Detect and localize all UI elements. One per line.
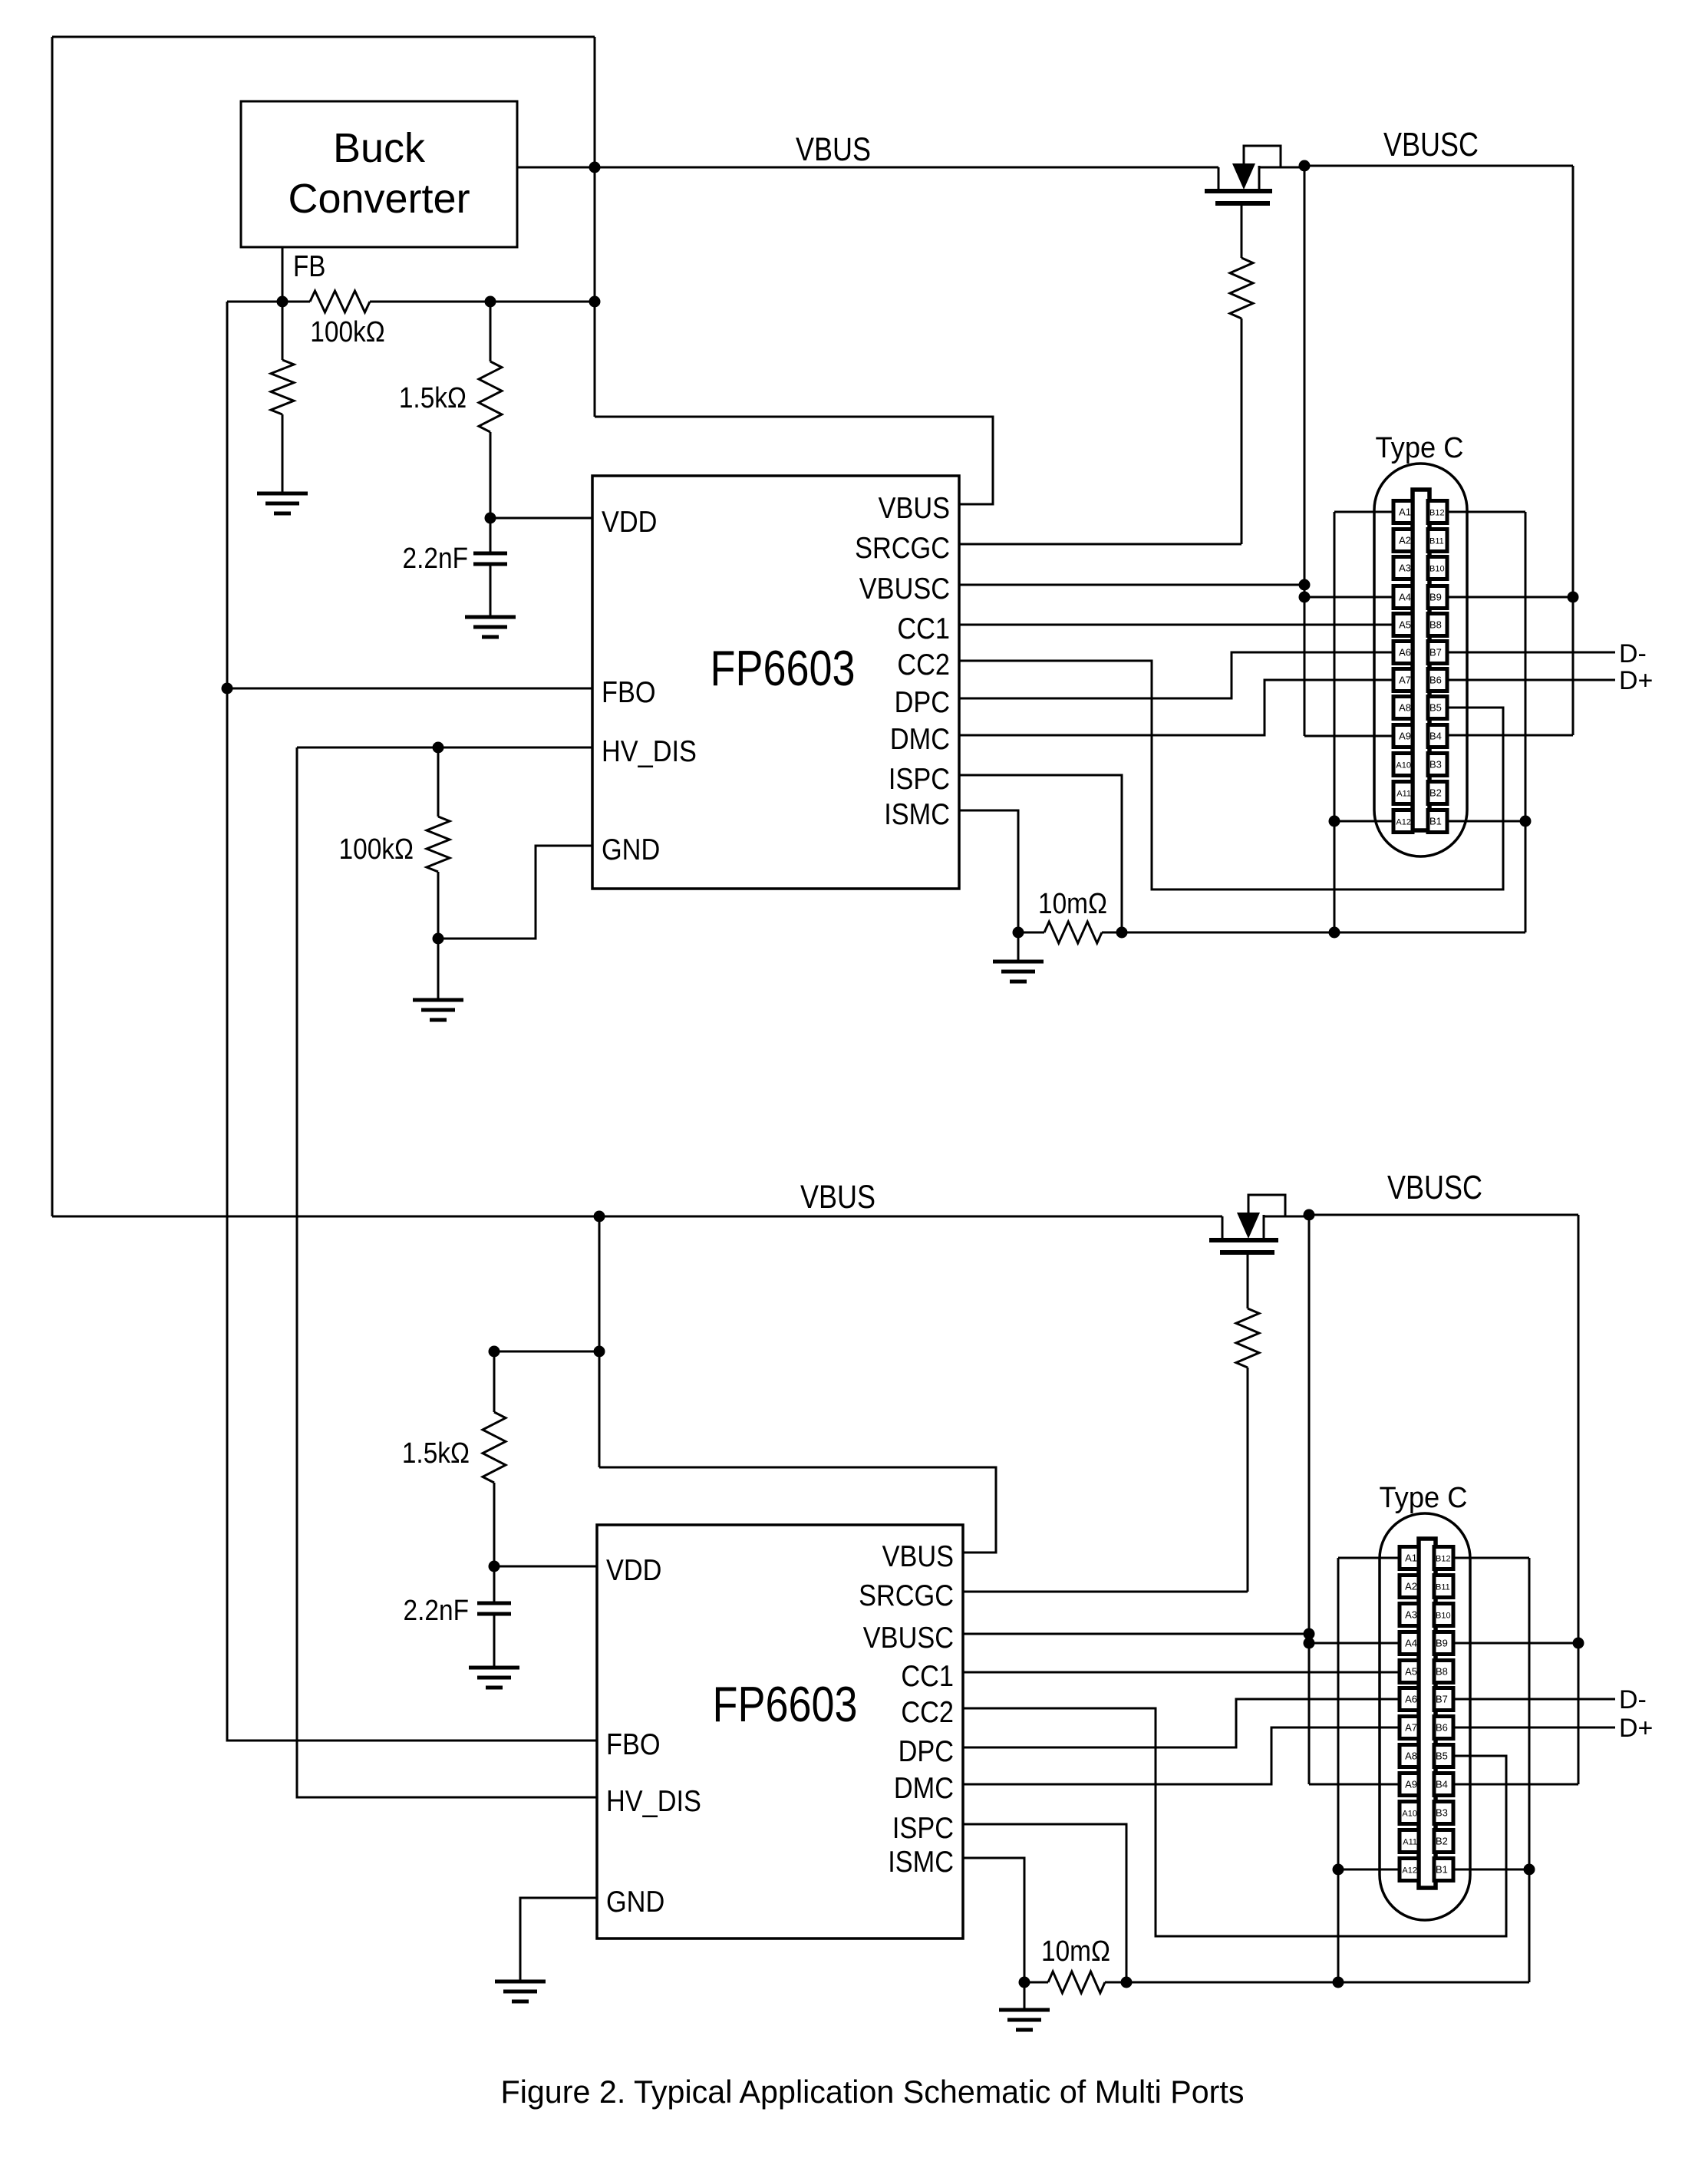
svg-text:10mΩ: 10mΩ	[1038, 887, 1107, 919]
J2 pin B10	[1434, 1604, 1453, 1626]
svg-text:A8: A8	[1399, 702, 1411, 714]
wire net VBUSC2 to B9	[1451, 1642, 1578, 1645]
J2 pin A9	[1400, 1774, 1419, 1796]
J1 pin B2	[1428, 782, 1447, 804]
junction VBUSC1/B9 junction	[1568, 592, 1579, 603]
label U2 pin VBUS	[882, 1539, 954, 1573]
label R_FB value	[310, 315, 384, 348]
svg-text:VBUS: VBUS	[800, 1179, 875, 1216]
ground GND below R1	[257, 493, 308, 513]
junction typeC-gnd left junction	[1329, 927, 1340, 939]
svg-text:B9: B9	[1436, 1638, 1448, 1649]
wire net DMC (U1 to A7)	[959, 680, 1394, 735]
wire C1 bottom lead	[490, 564, 492, 617]
wire left VBUS feed down to port2	[51, 37, 54, 1216]
label U1 pin SRCGC	[855, 531, 950, 565]
wire net VBUSC2 to B4	[1451, 1783, 1578, 1786]
wire net B12 wire	[1447, 511, 1525, 513]
J2 pin B4	[1434, 1774, 1453, 1796]
svg-text:Figure 2. Typical Application: Figure 2. Typical Application Schematic …	[501, 2074, 1245, 2110]
svg-text:CC1: CC1	[897, 612, 950, 645]
svg-text:VBUSC: VBUSC	[859, 572, 950, 605]
svg-text:A11: A11	[1396, 790, 1411, 799]
wire net VBUSC1 left drop	[1304, 166, 1306, 736]
svg-text:2.2nF: 2.2nF	[404, 1594, 469, 1626]
junction FBO1 junction	[222, 683, 233, 695]
wire top VBUS feed to port2 (top run)	[52, 36, 595, 38]
label U2 pin ISPC	[892, 1811, 954, 1845]
wire net VDD1	[490, 517, 592, 520]
J1 pin A12	[1393, 810, 1413, 833]
wire net B12-2 wire	[1451, 1557, 1529, 1559]
J2 pin A1	[1400, 1547, 1419, 1569]
wire net HV_DIS to U1	[297, 747, 592, 749]
wire net B1-2 wire	[1451, 1869, 1529, 1871]
J2 pin A5	[1400, 1661, 1419, 1683]
svg-text:FP6603: FP6603	[711, 640, 856, 696]
label U1 pin HV_DIS	[602, 734, 697, 768]
label U1 pin ISPC	[889, 762, 950, 796]
junction B1 junction	[1520, 816, 1532, 827]
svg-text:VBUS: VBUS	[879, 491, 950, 525]
svg-text:Type C: Type C	[1380, 1482, 1468, 1514]
wire net typeC-gnd left (A1/A12)	[1334, 512, 1336, 932]
svg-text:D+: D+	[1619, 1714, 1653, 1743]
label C2 value	[404, 1594, 469, 1626]
wire net CC1 (U1 to A5)	[959, 624, 1394, 626]
svg-text:A12: A12	[1396, 818, 1411, 827]
junction typeC2-gnd left junction	[1333, 1977, 1344, 1988]
J2 pin A10	[1400, 1802, 1419, 1824]
J2 pin B7	[1434, 1688, 1453, 1711]
J2 pin A8	[1400, 1745, 1419, 1767]
wire R5 zigzag	[1044, 922, 1102, 943]
wire net VBUSC1 to A4	[1304, 596, 1394, 599]
svg-text:A5: A5	[1405, 1666, 1417, 1678]
wire net FB left	[227, 301, 310, 303]
wire R_FB zigzag	[310, 291, 370, 312]
J1 pin B1	[1428, 810, 1447, 833]
junction R5 left junction	[1013, 927, 1024, 939]
capacitor C2 2.2nF	[477, 1603, 511, 1614]
J1 pin A4	[1393, 586, 1413, 609]
svg-text:Converter: Converter	[288, 176, 470, 222]
wire net CC1-2 (U2 to A5)	[963, 1671, 1400, 1674]
wire R7 zigzag	[1236, 1308, 1259, 1368]
label U2 pin VDD	[606, 1553, 661, 1587]
ground GND below R8	[999, 2010, 1050, 2030]
label R2 value	[399, 381, 467, 414]
J1 pin B4	[1428, 725, 1447, 747]
wire net A12-2 wire	[1338, 1869, 1400, 1871]
svg-text:B9: B9	[1429, 592, 1442, 603]
svg-text:GND: GND	[606, 1885, 664, 1919]
wire net VBUSC1 top	[1304, 165, 1573, 167]
ground GND below C1	[465, 617, 516, 637]
connector J2 (USB Type-C receptacle)	[1380, 1513, 1470, 1920]
wire net A1 wire	[1334, 511, 1394, 513]
svg-text:A9: A9	[1405, 1779, 1417, 1790]
wire R7 top lead	[1247, 1252, 1249, 1308]
wire R6 bottom lead	[493, 1483, 496, 1566]
wire net typeC2-gnd left (A1/A12)	[1337, 1558, 1340, 1982]
J1 pin B3	[1428, 754, 1447, 776]
wire net DMC-2 (U2 to A7)	[963, 1727, 1400, 1784]
svg-text:B1: B1	[1436, 1864, 1448, 1876]
svg-text:A6: A6	[1405, 1694, 1417, 1705]
label R8 value	[1041, 1935, 1110, 1967]
wire net CC2 (U1 to B5)	[959, 661, 1503, 889]
junction A12 junction	[1329, 816, 1340, 827]
svg-text:1.5kΩ: 1.5kΩ	[399, 381, 467, 414]
svg-text:B3: B3	[1436, 1807, 1448, 1819]
wire R4 zigzag	[1230, 258, 1253, 318]
svg-text:ISPC: ISPC	[889, 762, 950, 796]
wire net ISPC2/typeC-gnd	[1126, 1981, 1529, 1984]
wire net VBUSC2 to U2 pin	[963, 1633, 1309, 1635]
junction VBUSC1/U1 pin junction	[1299, 579, 1311, 591]
wire R3 bottom lead	[437, 872, 440, 939]
wire net VBUS2	[52, 1216, 1222, 1218]
wire net HV_DIS	[297, 747, 597, 1797]
junction VBUSC1 junction at Q1 source	[1299, 160, 1311, 172]
label U2 pin DMC	[894, 1771, 954, 1805]
junction VBUS1/top-feed junction	[589, 162, 601, 173]
wire R6 zigzag	[483, 1412, 506, 1483]
J1 tongue	[1413, 490, 1429, 830]
wire net ISMC-2	[963, 1858, 1024, 1982]
wire net FBO to U1	[227, 688, 592, 690]
svg-text:SRCGC: SRCGC	[859, 1579, 954, 1612]
label U1 pin DMC	[890, 722, 950, 756]
wire net B1 wire	[1447, 820, 1525, 823]
J2 pin A6	[1400, 1688, 1419, 1711]
junction VBUSC2/B9 junction	[1573, 1638, 1584, 1649]
J1 pin A6	[1393, 642, 1413, 664]
wire net typeC2-gnd right (B12/B1)	[1528, 1558, 1531, 1982]
svg-text:A2: A2	[1399, 535, 1411, 546]
wire net ISPC	[959, 775, 1122, 932]
svg-text:A10: A10	[1402, 1810, 1417, 1819]
wire net ISPC/typeC-gnd	[1122, 932, 1525, 934]
wire R2 zigzag	[479, 361, 502, 432]
wire net VBUS1 drop from top run	[594, 37, 596, 417]
wire net R6 top link	[494, 1351, 599, 1353]
wire net VBUSC1 right drop	[1572, 166, 1574, 735]
wire R8 zigzag	[1048, 1972, 1105, 1993]
svg-text:A5: A5	[1399, 619, 1411, 631]
svg-text:A2: A2	[1405, 1581, 1417, 1592]
label R6 value	[402, 1437, 470, 1469]
wire GND1 stem	[437, 939, 440, 1000]
label U1 pin VDD	[602, 505, 657, 539]
wire R8 right lead	[1105, 1981, 1126, 1984]
junction R8 left junction	[1019, 1977, 1030, 1988]
junction VDD1 junction	[485, 513, 496, 524]
junction VBUSC1/A4 junction	[1299, 592, 1311, 603]
wire net VBUSC1 to U1 pin	[959, 584, 1304, 586]
svg-text:B2: B2	[1429, 787, 1442, 799]
wire Buck FB lead	[282, 247, 284, 302]
J2 pin B3	[1434, 1802, 1453, 1824]
wire net GND2 (U2 GND)	[520, 1898, 597, 1981]
svg-text:HV_DIS: HV_DIS	[602, 734, 697, 768]
junction FB/VBUS1 junction	[589, 296, 601, 308]
label U1 pin DPC	[895, 685, 950, 719]
svg-text:CC2: CC2	[901, 1695, 954, 1729]
wire net VBUS1	[517, 167, 1218, 169]
J2 pin B9	[1434, 1632, 1453, 1655]
J2 pin A12	[1400, 1859, 1419, 1881]
J2 pin A11	[1400, 1830, 1419, 1853]
J2 pin A7	[1400, 1717, 1419, 1739]
junction VBUS2/R6 junction	[594, 1346, 605, 1358]
label U1 pin CC2	[897, 648, 950, 681]
ground GND below C2	[469, 1668, 519, 1688]
label U1 pin CC1	[897, 612, 950, 645]
wire net CC2-2 (U2 to B5)	[963, 1708, 1506, 1936]
wire R5 right lead	[1102, 932, 1122, 934]
wire net D- (B7)	[1447, 652, 1615, 654]
J1 pin A1	[1393, 501, 1413, 523]
wire R3 zigzag	[427, 817, 450, 872]
wire R2 bottom lead	[490, 432, 492, 518]
J1 pin B6	[1428, 669, 1447, 691]
J1 pin B8	[1428, 614, 1447, 636]
wire net D+ (B6)	[1447, 679, 1615, 681]
transistor Q1 (pass PMOS)	[1205, 146, 1304, 203]
svg-text:SRCGC: SRCGC	[855, 531, 950, 565]
J1 pin A5	[1393, 614, 1413, 636]
J1 pin B7	[1428, 642, 1447, 664]
label U2 pin VBUSC	[863, 1621, 954, 1655]
svg-text:A1: A1	[1399, 507, 1411, 518]
wire C1 top lead	[490, 518, 492, 553]
svg-text:A11: A11	[1403, 1838, 1417, 1847]
label U1 pin GND	[602, 833, 660, 866]
svg-text:B7: B7	[1429, 647, 1442, 658]
junction FB/R1.5k junction	[485, 296, 496, 308]
wire net VBUSC2 right drop	[1578, 1215, 1580, 1784]
wire net A1-2 wire	[1338, 1557, 1400, 1559]
svg-text:B6: B6	[1429, 675, 1442, 686]
J2 pin B12	[1434, 1547, 1453, 1569]
capacitor C1 2.2nF	[473, 553, 507, 564]
junction VBUS2 junction	[594, 1211, 605, 1223]
wire R6 top lead	[493, 1351, 496, 1412]
junction R6 top junction	[489, 1346, 500, 1358]
svg-text:ISMC: ISMC	[888, 1845, 954, 1879]
label U2 pin CC2	[901, 1695, 954, 1729]
IC U2 FP6603 (port 2)	[597, 1525, 963, 1939]
svg-text:DMC: DMC	[890, 722, 950, 756]
J2 pin B1	[1434, 1859, 1453, 1881]
ground GND below R5	[993, 962, 1044, 982]
svg-text:B12: B12	[1436, 1555, 1451, 1564]
J2 pin A4	[1400, 1632, 1419, 1655]
label U1 pin FBO	[602, 675, 656, 709]
svg-text:B11: B11	[1436, 1583, 1450, 1592]
svg-text:FBO: FBO	[606, 1727, 661, 1761]
J1 pin B5	[1428, 697, 1447, 719]
svg-text:B4: B4	[1436, 1779, 1448, 1790]
J1 pin A11	[1393, 782, 1413, 804]
wire net SRCGC1	[959, 543, 1241, 546]
label U2 pin ISMC	[888, 1845, 954, 1879]
wire R8 left lead	[1024, 1981, 1048, 1984]
wire R4 bottom lead to SRCGC	[1241, 318, 1243, 544]
svg-text:Type C: Type C	[1376, 432, 1464, 464]
wire net VBUSC1 to A9	[1304, 735, 1394, 737]
wire net D-2 (B7)	[1451, 1698, 1615, 1701]
J1 pin B9	[1428, 586, 1447, 609]
junction FB/R100k junction	[277, 296, 289, 308]
junction VBUSC2/U2 pin junction	[1304, 1628, 1315, 1640]
svg-text:VBUS: VBUS	[796, 131, 871, 168]
label U2 pin FBO	[606, 1727, 661, 1761]
wire R7 bottom lead to SRCGC	[1247, 1368, 1249, 1592]
wire net ISMC	[959, 810, 1018, 932]
label R3 value	[339, 833, 414, 865]
wire R5 left lead	[1018, 932, 1044, 934]
junction VDD2 junction	[489, 1561, 500, 1572]
wire net DPC (U1 to A6)	[959, 652, 1394, 698]
svg-text:FB: FB	[293, 249, 325, 282]
svg-text:VBUSC: VBUSC	[863, 1621, 954, 1655]
label U2 pin CC1	[901, 1659, 954, 1693]
junction R3/GND1 junction	[433, 933, 444, 945]
svg-text:D-: D-	[1619, 639, 1647, 668]
svg-text:A6: A6	[1399, 647, 1411, 658]
wire net SRCGC2	[963, 1591, 1248, 1593]
svg-text:GND: GND	[602, 833, 660, 866]
svg-text:CC2: CC2	[897, 648, 950, 681]
wire R1 zigzag	[271, 360, 294, 414]
J1 pin B12	[1428, 501, 1447, 523]
wire R4 top lead	[1241, 203, 1243, 258]
label U2 pin DPC	[899, 1734, 954, 1768]
label R5 value	[1038, 887, 1107, 919]
J1 pin A8	[1393, 697, 1413, 719]
wire R3 top lead	[437, 747, 440, 817]
label FB pin	[293, 249, 325, 282]
connector J1 (USB Type-C receptacle)	[1374, 464, 1467, 856]
wire R1 bottom lead	[282, 414, 284, 493]
svg-text:A10: A10	[1396, 761, 1411, 770]
junction B1-2 junction	[1524, 1864, 1535, 1876]
wire net DPC-2 (U2 to A6)	[963, 1699, 1400, 1747]
svg-text:B5: B5	[1436, 1750, 1448, 1762]
wire net VBUSC2 to A4	[1309, 1642, 1400, 1645]
svg-text:CC1: CC1	[901, 1659, 954, 1693]
junction HV_DIS/R3 junction	[433, 742, 444, 754]
J2 pin B11	[1434, 1576, 1453, 1598]
svg-text:VBUSC: VBUSC	[1383, 126, 1479, 163]
svg-text:A4: A4	[1405, 1638, 1417, 1649]
wire net VBUS2 to U2 VBUS pin	[599, 1467, 996, 1553]
svg-text:A1: A1	[1405, 1553, 1417, 1564]
svg-text:B8: B8	[1429, 619, 1442, 631]
svg-text:DPC: DPC	[895, 685, 950, 719]
wire GND stem below R8	[1024, 1982, 1026, 2010]
transistor Q2 (pass PMOS)	[1209, 1195, 1309, 1252]
svg-text:2.2nF: 2.2nF	[403, 542, 468, 574]
svg-text:D-: D-	[1619, 1685, 1647, 1714]
block Buck Converter	[241, 101, 517, 247]
J1 pin A2	[1393, 530, 1413, 552]
J2 pin B5	[1434, 1745, 1453, 1767]
wire R2 top lead	[490, 302, 492, 361]
svg-text:B10: B10	[1436, 1612, 1451, 1621]
label U2 pin GND	[606, 1885, 664, 1919]
svg-text:B4: B4	[1429, 731, 1442, 742]
svg-text:1.5kΩ: 1.5kΩ	[402, 1437, 470, 1469]
wire net typeC-gnd right (B12/B1)	[1525, 512, 1527, 932]
ground GND below U2	[495, 1981, 546, 2001]
label U2 pin SRCGC	[859, 1579, 954, 1612]
svg-text:A3: A3	[1399, 563, 1411, 574]
wire R1 top lead	[282, 302, 284, 360]
svg-text:FBO: FBO	[602, 675, 656, 709]
wire net VDD2	[494, 1566, 597, 1568]
svg-text:DPC: DPC	[899, 1734, 954, 1768]
svg-text:B7: B7	[1436, 1694, 1448, 1705]
wire net VBUSC1 to B9	[1447, 596, 1573, 599]
J1 pin A3	[1393, 557, 1413, 579]
svg-text:FP6603: FP6603	[713, 1676, 858, 1732]
wire net VBUSC2 left drop	[1308, 1215, 1311, 1784]
J1 pin A9	[1393, 725, 1413, 747]
wire GND stem below R5	[1017, 932, 1020, 962]
svg-text:A9: A9	[1399, 731, 1411, 742]
label U1 pin VBUS	[879, 491, 950, 525]
J1 pin A10	[1393, 754, 1413, 776]
wire net VBUSC2 top	[1309, 1214, 1578, 1216]
J2 pin A3	[1400, 1604, 1419, 1626]
junction VBUSC2/A4 junction	[1304, 1638, 1315, 1649]
J2 pin B2	[1434, 1830, 1453, 1853]
wire net GND1 (U1 GND)	[438, 846, 592, 939]
junction R5 right junction	[1116, 927, 1128, 939]
svg-text:ISPC: ISPC	[892, 1811, 954, 1845]
wire net VBUS2 drop	[598, 1216, 601, 1467]
J2 pin A2	[1400, 1576, 1419, 1598]
svg-text:B6: B6	[1436, 1722, 1448, 1734]
junction A12-2 junction	[1333, 1864, 1344, 1876]
label U2 pin HV_DIS	[606, 1784, 701, 1818]
svg-text:DMC: DMC	[894, 1771, 954, 1805]
svg-text:10mΩ: 10mΩ	[1041, 1935, 1110, 1967]
J1 pin A7	[1393, 669, 1413, 691]
label U1 pin VBUSC	[859, 572, 950, 605]
wire net ISPC-2	[963, 1824, 1126, 1982]
svg-text:VDD: VDD	[606, 1553, 661, 1587]
wire net VBUS1 to U1 VBUS pin	[595, 417, 993, 504]
J2 pin B8	[1434, 1661, 1453, 1683]
wire C2 bottom lead	[493, 1614, 496, 1668]
IC U1 FP6603 (port 1)	[592, 476, 959, 889]
wire C2 top lead	[493, 1566, 496, 1603]
svg-text:VBUS: VBUS	[882, 1539, 954, 1573]
svg-text:D+: D+	[1619, 666, 1653, 695]
wire net VBUSC2 to A9	[1309, 1783, 1400, 1786]
label C1 value	[403, 542, 468, 574]
svg-text:B8: B8	[1436, 1666, 1448, 1678]
wire net FBO	[227, 302, 597, 1741]
svg-text:VBUSC: VBUSC	[1387, 1169, 1482, 1206]
svg-text:B2: B2	[1436, 1836, 1448, 1847]
svg-text:100kΩ: 100kΩ	[339, 833, 414, 865]
